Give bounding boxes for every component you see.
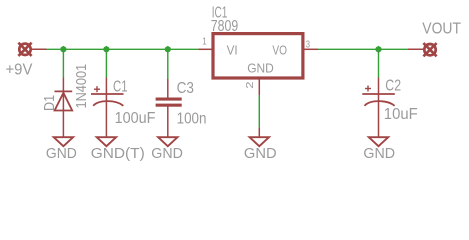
svg-text:10uF: 10uF: [384, 106, 418, 124]
svg-text:2: 2: [243, 82, 255, 89]
wire: drop to D1: [62, 49, 64, 77]
ground under C3: [158, 137, 177, 146]
svg-text:C1: C1: [113, 77, 128, 95]
svg-text:GND: GND: [247, 61, 274, 76]
pin 1 stub: [199, 48, 212, 50]
junction at C1: [103, 46, 110, 53]
wire: drop to C1: [105, 49, 107, 77]
svg-text:+9V: +9V: [6, 61, 34, 79]
pad +9V: [18, 43, 31, 56]
wire: main +9V rail (pad to IC pin 1): [46, 48, 199, 50]
capacitor C1 (polarized): [91, 78, 124, 138]
diode D1: [55, 78, 73, 138]
ground under IC: [250, 137, 269, 146]
svg-text:100n: 100n: [177, 111, 207, 128]
pin stub from +9V pad: [30, 48, 47, 50]
wire: drop to C2: [378, 49, 380, 77]
svg-text:GND: GND: [363, 145, 395, 161]
svg-text:VI: VI: [227, 43, 238, 58]
pin 3 stub: [304, 48, 318, 50]
svg-text:GND: GND: [244, 146, 277, 162]
ground under C2: [369, 137, 388, 146]
wire: VO rail (IC pin 3 to VOUT): [318, 48, 408, 50]
wire: drop to C3: [167, 49, 169, 79]
svg-text:GND: GND: [46, 145, 77, 162]
svg-text:C2: C2: [385, 77, 401, 95]
wire: C3 top lead: [167, 79, 169, 98]
svg-text:3: 3: [306, 39, 310, 50]
svg-text:1N4001: 1N4001: [72, 64, 89, 109]
svg-text:7809: 7809: [211, 17, 238, 35]
pin 2 stub: [258, 80, 260, 96]
svg-text:1: 1: [202, 36, 206, 47]
wire: IC pin 2 to GND: [258, 95, 260, 127]
wire: C3 bottom lead: [167, 106, 169, 138]
pin stub to VOUT pad: [408, 48, 425, 50]
svg-text:VOUT: VOUT: [422, 20, 461, 38]
svg-text:VO: VO: [272, 43, 287, 57]
junction at C3: [164, 46, 171, 53]
svg-text:D1: D1: [40, 95, 57, 111]
ground lead under IC pin 2: [258, 127, 260, 137]
regulator IC1 (7809) box: [213, 34, 303, 78]
capacitor C2 (polarized): [362, 78, 395, 138]
ground under D1: [54, 137, 73, 146]
ground under C1: [97, 137, 116, 146]
svg-text:GND(T): GND(T): [91, 145, 145, 162]
pad VOUT: [423, 43, 436, 56]
svg-text:C3: C3: [177, 80, 194, 97]
junction at C2/VOUT: [375, 46, 382, 53]
capacitor C3: [156, 98, 182, 107]
svg-text:GND: GND: [151, 145, 183, 161]
svg-text:100uF: 100uF: [115, 109, 156, 127]
junction at D1: [60, 46, 67, 53]
